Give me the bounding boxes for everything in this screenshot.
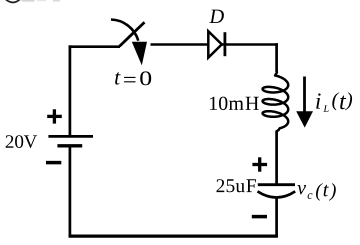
label 25uF <box>217 179 256 192</box>
capacitor + polarity <box>252 157 267 171</box>
wire: left vertical upper (source top lead) <box>69 45 72 136</box>
wire: left vertical lower (source - to bottom-left corner) <box>69 146 72 238</box>
battery + polarity <box>47 109 62 123</box>
switch arrowhead <box>132 42 147 66</box>
diode cathode bar <box>223 32 226 56</box>
stray mark: bottom of circled figure number (cropped at top edge) <box>6 0 20 2</box>
battery short plate (-) <box>57 144 82 147</box>
label t = 0 <box>115 71 151 85</box>
diode D <box>208 31 225 57</box>
capacitor curved plate <box>258 191 296 197</box>
label 10mH <box>210 97 259 111</box>
inductor L1 10mH coil <box>263 71 289 131</box>
switch blade <box>120 22 145 46</box>
label 20V <box>6 135 37 148</box>
current arrow iL (head) <box>296 111 313 127</box>
current arrow iL (line) <box>303 77 306 114</box>
battery V1 20V <box>48 136 93 145</box>
battery long plate (+) <box>48 135 93 138</box>
label iL(t) <box>316 92 352 112</box>
wire: right vertical upper (corner to inductor) <box>275 43 278 72</box>
wire: right vertical lower (capacitor to bottom-right corner) <box>275 198 278 237</box>
wire: right vertical between inductor and capacitor <box>275 131 278 184</box>
battery - polarity <box>46 161 61 165</box>
wire: top segment diode cathode to top-right corner <box>222 43 278 46</box>
wire: top-left segment (source + to switch) <box>69 45 120 48</box>
capacitor - polarity <box>252 215 267 219</box>
wire: bottom horizontal <box>69 235 278 238</box>
label vc(t) <box>297 183 335 201</box>
label D <box>209 10 224 23</box>
capacitor top plate <box>258 183 295 186</box>
switch SW1 (closes at t=0) <box>111 20 147 66</box>
stray mark: faint cropped text remnants <box>22 0 61 2</box>
wire: top segment switch to diode anode <box>151 43 209 46</box>
switch motion arc <box>111 20 138 41</box>
diode triangle (anode) <box>208 31 222 57</box>
capacitor C1 25uF <box>258 185 296 198</box>
